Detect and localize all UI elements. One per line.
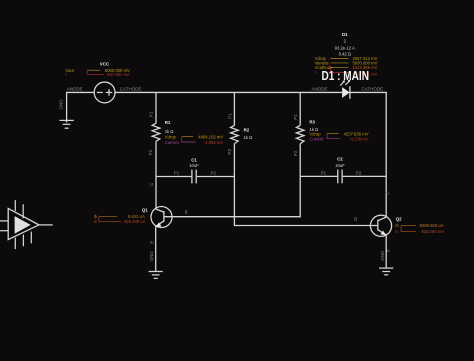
D1 Vdrop row bbox=[315, 56, 378, 61]
svg-text:I: I bbox=[65, 72, 66, 77]
svg-text:825.065 mA: 825.065 mA bbox=[421, 229, 444, 234]
svg-text:R3: R3 bbox=[309, 119, 315, 124]
ground (Q2 emitter) bbox=[379, 268, 393, 275]
Q2 Ib row bbox=[395, 223, 443, 228]
svg-text:Ic: Ic bbox=[395, 229, 398, 234]
svg-text:10uF: 10uF bbox=[335, 163, 345, 168]
R3 Vdrop row bbox=[309, 131, 368, 136]
svg-text:ANODE: ANODE bbox=[312, 87, 328, 92]
svg-text:625.409 uA: 625.409 uA bbox=[124, 219, 146, 224]
svg-text:P1: P1 bbox=[227, 113, 232, 119]
svg-text:0.42 Ω: 0.42 Ω bbox=[339, 52, 351, 57]
wire: R3 bottom lead down and left to Q1 base (C2 junction) bbox=[164, 144, 300, 217]
resistor R1 bbox=[152, 123, 160, 141]
wire: op-amp output stub bbox=[39, 224, 53, 226]
wire: Q2 emitter to ground bbox=[385, 234, 387, 268]
svg-text:1k Ω: 1k Ω bbox=[244, 135, 253, 140]
svg-text:Vout: Vout bbox=[65, 68, 74, 73]
wire: Q1 emitter to ground bbox=[155, 226, 157, 272]
svg-text:GND: GND bbox=[380, 250, 385, 261]
svg-text:Current: Current bbox=[165, 140, 180, 145]
svg-text:837.591 mA: 837.591 mA bbox=[107, 72, 130, 77]
svg-text:P1: P1 bbox=[148, 111, 153, 117]
wire: R2 top lead from rail bbox=[233, 92, 235, 125]
voltage source VCC bbox=[94, 82, 115, 103]
VCC Vout row bbox=[65, 68, 130, 73]
svg-text:10uF: 10uF bbox=[189, 163, 199, 168]
wire: C2 right lead bbox=[342, 175, 386, 177]
svg-text:CATHODE: CATHODE bbox=[120, 86, 142, 91]
svg-text:I: I bbox=[315, 70, 316, 75]
Q1 Ib row bbox=[94, 214, 145, 219]
svg-text:Q1: Q1 bbox=[142, 207, 148, 212]
R2 name/value labels bbox=[244, 127, 253, 140]
wire: top rail VCC cathode to D1 anode bbox=[115, 91, 342, 93]
op-amp U1 (partially off-screen left) bbox=[8, 200, 39, 249]
wire: C1 left lead bbox=[156, 176, 192, 178]
LED D1 bbox=[340, 80, 350, 99]
transistor Q1 bbox=[151, 207, 172, 228]
wire: op-amp inverting input stub bbox=[0, 230, 8, 232]
D1 property block bbox=[335, 32, 355, 57]
svg-text:P1: P1 bbox=[321, 170, 327, 175]
svg-text:GND: GND bbox=[59, 99, 64, 110]
svg-text:Q2: Q2 bbox=[396, 216, 402, 221]
R1 Vdrop row bbox=[165, 135, 224, 140]
svg-text:-4.864 mA: -4.864 mA bbox=[204, 140, 224, 145]
svg-text:P2: P2 bbox=[356, 170, 362, 175]
C1 name/value labels bbox=[189, 157, 199, 168]
wire: R1 bottom lead to Q1 collector (C1 junction) bbox=[155, 141, 157, 209]
resistor R2 bbox=[231, 125, 239, 143]
wire: C1 right lead bbox=[196, 176, 234, 178]
transistor Q2 bbox=[370, 215, 391, 236]
svg-text:R2: R2 bbox=[244, 127, 250, 132]
svg-text:4864.102 mV: 4864.102 mV bbox=[198, 135, 223, 140]
R1 Current row bbox=[165, 137, 224, 146]
svg-text:P1: P1 bbox=[174, 170, 180, 175]
wire: R3 top lead from rail bbox=[299, 92, 301, 125]
svg-text:P2: P2 bbox=[293, 150, 298, 156]
resistor R3 bbox=[296, 125, 304, 143]
svg-text:93.2e-12 A: 93.2e-12 A bbox=[335, 45, 355, 50]
svg-text:P2: P2 bbox=[227, 149, 232, 155]
svg-text:1k Ω: 1k Ω bbox=[165, 129, 174, 134]
D1 Vcathode row bbox=[315, 65, 378, 70]
wire: VCC anode to ground corner bbox=[67, 92, 95, 122]
R3 Current row bbox=[309, 134, 368, 142]
wire: op-amp non-inverting input stub bbox=[0, 220, 8, 222]
svg-text:R1: R1 bbox=[165, 120, 171, 125]
svg-text:Current: Current bbox=[309, 136, 324, 141]
Q1 Ic row bbox=[94, 217, 146, 224]
svg-text:B: B bbox=[354, 216, 357, 221]
svg-text:E: E bbox=[150, 241, 155, 244]
wire: C2 left lead bbox=[300, 175, 338, 177]
D1 I row bbox=[315, 67, 378, 76]
svg-text:C2: C2 bbox=[337, 156, 343, 161]
svg-text:GND: GND bbox=[149, 251, 154, 262]
VCC I row bbox=[65, 70, 130, 77]
svg-text:P2: P2 bbox=[210, 170, 216, 175]
capacitor C2 bbox=[338, 170, 342, 184]
svg-text:Ic: Ic bbox=[94, 219, 97, 224]
svg-text:8290.655 uA: 8290.655 uA bbox=[420, 223, 444, 228]
svg-text:-4.238 mA: -4.238 mA bbox=[349, 136, 369, 141]
svg-text:VCC: VCC bbox=[100, 62, 110, 67]
R3 name/value labels bbox=[309, 119, 318, 132]
svg-text:B: B bbox=[185, 210, 188, 215]
svg-text:P1: P1 bbox=[293, 114, 298, 120]
C2 name/value labels bbox=[335, 156, 345, 168]
wire: R1 top lead from rail bbox=[155, 92, 157, 123]
svg-text:C1: C1 bbox=[191, 157, 197, 162]
wire: D1 cathode to Q2 collector (with C2 junction) bbox=[350, 92, 386, 217]
ground (VCC return) bbox=[60, 120, 74, 128]
svg-text:D1 : MAIN: D1 : MAIN bbox=[321, 70, 369, 83]
D1 Vanode row bbox=[315, 60, 378, 65]
svg-text:Vdrop: Vdrop bbox=[165, 135, 177, 140]
svg-text:ANODE: ANODE bbox=[67, 86, 83, 91]
wire: R2 bottom lead down and right to Q2 base bbox=[234, 144, 377, 226]
svg-text:CATHODE: CATHODE bbox=[362, 87, 384, 92]
svg-text:P2: P2 bbox=[148, 149, 153, 155]
R1 name/value labels bbox=[165, 120, 174, 134]
Q2 Ic row bbox=[395, 226, 444, 234]
svg-text:D1: D1 bbox=[342, 32, 348, 37]
capacitor C1 bbox=[192, 170, 196, 184]
ground (Q1 emitter) bbox=[149, 272, 163, 279]
